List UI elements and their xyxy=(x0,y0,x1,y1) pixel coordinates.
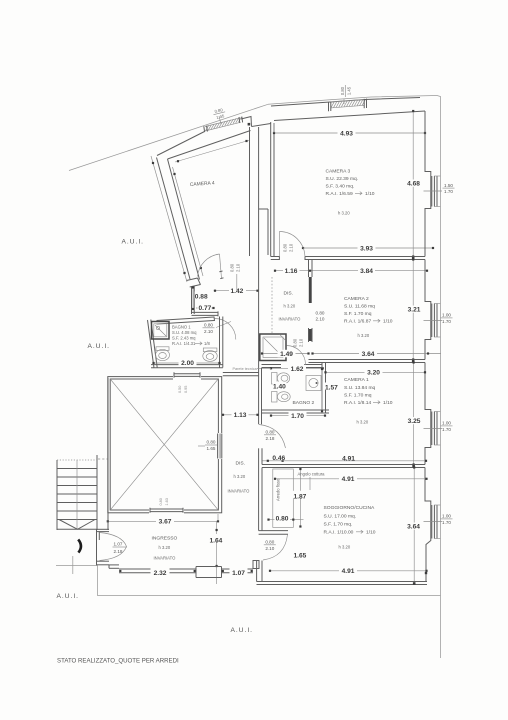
svg-text:4.91: 4.91 xyxy=(342,568,355,575)
door entrance label 1.07/2.18 xyxy=(113,542,128,555)
wall dis west (long) xyxy=(258,256,260,424)
svg-text:S.U. 11.68 mq: S.U. 11.68 mq xyxy=(344,304,375,310)
room label INGRESSO block xyxy=(152,536,178,561)
wall bagno1 north xyxy=(157,317,215,325)
wall ingresso south middle chunk xyxy=(196,567,222,578)
svg-text:1.62: 1.62 xyxy=(291,366,304,373)
svg-text:h 3.20: h 3.20 xyxy=(357,420,369,425)
svg-text:1.07: 1.07 xyxy=(232,570,245,577)
svg-text:3.93: 3.93 xyxy=(360,245,373,252)
door camera2 label 0.80/2.10 xyxy=(316,310,325,321)
door entrance (double arc) xyxy=(100,533,127,561)
svg-text:INVARIATO: INVARIATO xyxy=(154,556,177,561)
window camera3 east xyxy=(432,176,441,207)
wall bagno2 north xyxy=(262,365,323,368)
dim 1.16 and 3.84 xyxy=(274,265,428,275)
svg-text:1.40: 1.40 xyxy=(273,384,286,391)
window camera1 east xyxy=(432,412,441,446)
dim 3.64 (camera2 south) xyxy=(311,348,441,358)
svg-text:1.00: 1.00 xyxy=(442,313,451,318)
door camera4 jamb xyxy=(219,271,223,279)
svg-text:1.13: 1.13 xyxy=(234,412,247,419)
svg-text:1.57: 1.57 xyxy=(325,385,338,392)
svg-text:0.80: 0.80 xyxy=(230,263,235,272)
site boundary (left stub at entrance) xyxy=(56,565,98,567)
dim 3.64 (vertical soggiorno) xyxy=(405,466,422,585)
room label CAMERA 2 block xyxy=(344,296,393,338)
svg-text:S.F. 2.43 mq: S.F. 2.43 mq xyxy=(172,335,196,340)
svg-text:2.10: 2.10 xyxy=(204,329,213,334)
window camera3 east label 1.50/1.70 xyxy=(424,183,455,194)
svg-text:1.07: 1.07 xyxy=(114,542,123,547)
wall camera3 west xyxy=(271,122,274,257)
dim 1.62 xyxy=(270,365,324,373)
wall strip west line xyxy=(249,127,251,256)
dim 1.65 xyxy=(293,550,309,560)
svg-text:4.68: 4.68 xyxy=(407,181,420,188)
wall closet west xyxy=(192,286,195,314)
wall soggiorno door header xyxy=(259,531,288,535)
wall bagno2 south xyxy=(262,410,330,413)
svg-text:0.88: 0.88 xyxy=(195,294,208,301)
svg-text:0.46: 0.46 xyxy=(272,455,285,462)
wall camera4 north outer face xyxy=(157,117,252,156)
dim 3.93 xyxy=(302,244,434,252)
wall bagno1 south xyxy=(151,365,223,368)
dim 4.68 (vertical) xyxy=(405,110,422,258)
site boundary (bottom horizontal) xyxy=(98,595,441,597)
svg-text:1.70: 1.70 xyxy=(444,189,453,194)
dim 0.80 xyxy=(267,513,303,522)
window camera3 north (hatched) xyxy=(329,99,367,112)
wall camera3 north outer face xyxy=(271,98,420,107)
dim 1.87 (vertical) xyxy=(293,468,309,528)
svg-text:A.U.I.: A.U.I. xyxy=(57,593,80,600)
svg-text:1/10: 1/10 xyxy=(383,400,393,406)
svg-text:4.91: 4.91 xyxy=(342,476,355,483)
svg-text:2.00: 2.00 xyxy=(181,360,194,367)
door bagno2 (arc) xyxy=(287,346,306,365)
window camera2 east xyxy=(432,304,441,338)
room label DIS lower xyxy=(228,461,251,494)
svg-text:1.45: 1.45 xyxy=(346,86,351,95)
svg-text:SOGGIORNO/CUCINA: SOGGIORNO/CUCINA xyxy=(324,505,376,511)
svg-text:0.80: 0.80 xyxy=(159,498,163,505)
shower (dis) xyxy=(260,334,286,361)
svg-text:1.50: 1.50 xyxy=(444,183,453,188)
wall camera4 west (inner face) xyxy=(168,159,200,280)
svg-text:h 3.20: h 3.20 xyxy=(339,545,351,550)
svg-text:1/10: 1/10 xyxy=(383,319,393,325)
svg-text:R.A.I. 1/10.00: R.A.I. 1/10.00 xyxy=(324,530,354,536)
dim 1.64 (vertical) xyxy=(209,521,225,584)
wall tecnica (label) xyxy=(233,367,272,371)
door soggiorno label 0.80/2.10 xyxy=(264,540,276,551)
door camera2 sliding leaf (dark) xyxy=(309,277,312,303)
fixture bagno2 wc xyxy=(272,373,290,385)
dim 0.46 and 4.91 (camera1 south) xyxy=(263,453,428,462)
wall corridor east xyxy=(259,368,262,531)
site boundary (bottom-left vertical) xyxy=(97,566,99,596)
wall soggiorno west xyxy=(259,448,262,530)
svg-text:2.18: 2.18 xyxy=(266,436,275,441)
svg-text:INGRESSO: INGRESSO xyxy=(152,536,178,542)
svg-text:0.77: 0.77 xyxy=(199,305,212,312)
window soggiorno east label 1.00/1.70 xyxy=(424,514,453,525)
wall bagno1 east xyxy=(220,317,223,368)
svg-text:2.32: 2.32 xyxy=(154,570,167,577)
svg-text:1.87: 1.87 xyxy=(294,493,307,500)
dim 4.91 (soggiorno south) xyxy=(269,567,428,575)
label A.U.I. bottom-left xyxy=(57,593,80,600)
label A.U.I. mid-left xyxy=(88,343,111,350)
svg-text:S.U. 13.84 mq: S.U. 13.84 mq xyxy=(344,385,376,391)
window ingresso 1.07 xyxy=(222,567,254,577)
wall east (inner face with window recesses) xyxy=(425,111,431,582)
door camera4 (arc) xyxy=(198,254,222,279)
svg-text:2.10: 2.10 xyxy=(316,317,325,322)
dim 3.21 (vertical) xyxy=(406,258,423,360)
svg-text:1.63: 1.63 xyxy=(165,498,169,505)
room label CAMERA 1 block xyxy=(344,377,393,425)
room label CAMERA 4 xyxy=(190,180,215,188)
stairs arrow V xyxy=(59,520,95,530)
svg-text:3.67: 3.67 xyxy=(159,519,172,526)
svg-text:0.95: 0.95 xyxy=(184,386,188,393)
svg-text:1/10: 1/10 xyxy=(366,530,376,536)
door camera1 label 0.80/2.18 xyxy=(264,430,276,441)
door camera3 (leaf+arc) xyxy=(279,232,305,258)
window ingresso 2.32 xyxy=(119,567,196,577)
wall bagno1 west xyxy=(148,320,158,369)
wall strip east line xyxy=(258,127,260,209)
wall camera1 south xyxy=(262,465,425,468)
svg-text:1.70: 1.70 xyxy=(442,319,451,324)
svg-text:1.70: 1.70 xyxy=(442,427,451,432)
site boundary (right vertical) xyxy=(437,96,441,659)
svg-text:0.80: 0.80 xyxy=(265,540,274,545)
wall soggiorno south xyxy=(257,582,428,585)
dim 3.67 xyxy=(107,514,219,526)
wall camera2 west lower chunk xyxy=(309,328,313,342)
svg-text:A.U.I.: A.U.I. xyxy=(88,343,111,350)
svg-text:1.70: 1.70 xyxy=(442,520,451,525)
wall bagno2 east xyxy=(322,363,326,414)
wall ingresso west xyxy=(97,529,100,565)
svg-text:0.80: 0.80 xyxy=(276,516,289,523)
dim 3.25 (vertical) xyxy=(406,361,423,465)
svg-text:1.65: 1.65 xyxy=(294,553,307,560)
door camera4 label 0.80/2.10 (rotated) xyxy=(230,263,241,272)
dashed service line xyxy=(98,458,108,460)
svg-text:3.25: 3.25 xyxy=(408,418,421,425)
svg-text:2.10: 2.10 xyxy=(236,263,241,272)
dim 1.42 xyxy=(214,274,259,295)
dim 1.40 xyxy=(273,382,287,391)
window courtyard south xyxy=(149,507,184,515)
svg-text:S.F. 1.70 mq: S.F. 1.70 mq xyxy=(344,311,372,317)
dim 1.57 (vertical) xyxy=(321,368,339,412)
svg-text:4.91: 4.91 xyxy=(342,455,355,462)
svg-text:4.93: 4.93 xyxy=(340,130,353,137)
svg-text:1.16: 1.16 xyxy=(285,268,298,275)
fixture arredo fisso (fitted furniture) xyxy=(273,469,294,527)
svg-text:0.80: 0.80 xyxy=(293,338,298,347)
niche in wall strip xyxy=(259,209,268,256)
courtyard cross diagonal 1 xyxy=(110,379,218,510)
wall camera4 south (slanted) xyxy=(187,278,201,287)
window courtyard east xyxy=(217,433,223,459)
wall camera4 north inner face xyxy=(168,131,251,160)
dim 0.88 xyxy=(192,286,208,310)
svg-text:R.A.I. 1/6.87: R.A.I. 1/6.87 xyxy=(344,319,371,325)
svg-text:S.U. 22.39 mq.: S.U. 22.39 mq. xyxy=(326,176,359,182)
fixture bagno1 bidet xyxy=(203,348,217,361)
window courtyard north labels (rotated) xyxy=(178,386,188,393)
site boundary A.U.I. line (top-left diagonal) xyxy=(69,104,268,170)
room label DIS upper xyxy=(279,291,302,322)
svg-text:1.65: 1.65 xyxy=(207,446,216,451)
door camera3 label (rotated) xyxy=(283,243,294,252)
fixture bagno1 shower xyxy=(152,322,170,340)
svg-text:STATO REALIZZATO_QUOTE PER ARR: STATO REALIZZATO_QUOTE PER ARREDI xyxy=(57,658,179,665)
wall camera3 south (left chunk) xyxy=(271,256,280,260)
svg-text:S.F. 3.40 mq.: S.F. 3.40 mq. xyxy=(326,184,355,190)
window courtyard south label (rotated) xyxy=(159,498,169,505)
svg-text:Arredo fisso: Arredo fisso xyxy=(276,478,281,501)
window soggiorno east xyxy=(432,505,441,539)
window camera2 east label 1.00/1.70 xyxy=(424,313,453,324)
svg-text:CAMERA 2: CAMERA 2 xyxy=(344,296,369,302)
window camera1 east label 1.00/1.70 xyxy=(424,421,453,432)
label A.U.I. top-left xyxy=(122,239,145,246)
svg-text:R.A.I. 1/8.14: R.A.I. 1/8.14 xyxy=(344,400,371,406)
dim 3.20 xyxy=(324,368,426,376)
svg-text:INVARIATO: INVARIATO xyxy=(228,489,251,494)
door bagno1 (arc) xyxy=(215,318,236,339)
stairs treads xyxy=(57,469,97,520)
svg-text:3.20: 3.20 xyxy=(367,370,380,377)
svg-text:0.80: 0.80 xyxy=(266,430,275,435)
wall camera4 west (outer face) xyxy=(157,158,191,280)
svg-text:0.80: 0.80 xyxy=(207,440,216,445)
fixture bagno1 wc xyxy=(156,347,170,361)
svg-text:3.64: 3.64 xyxy=(407,524,420,531)
dim camera4 west wall (inner diagonal line) xyxy=(173,167,204,276)
wall ingresso north (under stairs) xyxy=(97,529,109,531)
wall soggiorno west lower xyxy=(257,561,262,582)
svg-text:CAMERA 3: CAMERA 3 xyxy=(326,169,351,175)
room label CAMERA 3 block xyxy=(326,169,375,216)
svg-text:h 3.20: h 3.20 xyxy=(358,333,370,338)
svg-text:1.49: 1.49 xyxy=(280,351,293,358)
dim 1.49 xyxy=(261,350,310,358)
room label SOGGIORNO block xyxy=(324,505,376,550)
fixture bagno2 sink xyxy=(306,376,321,391)
dim camera4 west wall (outer diagonal line) xyxy=(151,156,187,282)
svg-text:h 3.20: h 3.20 xyxy=(234,474,246,479)
wall camera2 south xyxy=(309,360,426,363)
fixture bagno2 bidet xyxy=(272,392,291,403)
dim 0.77 xyxy=(196,303,215,312)
svg-text:3.21: 3.21 xyxy=(408,307,421,314)
courtyard cross diagonal 2 xyxy=(110,379,218,510)
svg-text:3.64: 3.64 xyxy=(362,351,375,358)
svg-text:BAGNO 2: BAGNO 2 xyxy=(293,400,315,406)
svg-text:0.50: 0.50 xyxy=(178,386,182,393)
boundary tick mark xyxy=(72,556,74,574)
window courtyard east label 0.80/1.65 xyxy=(198,440,217,451)
wall tecnica band xyxy=(223,373,259,376)
dim 2.00 xyxy=(152,359,220,367)
svg-text:h 3.20: h 3.20 xyxy=(338,211,350,216)
svg-text:0.80: 0.80 xyxy=(316,310,325,315)
svg-text:1.00: 1.00 xyxy=(442,514,451,519)
stairs outline xyxy=(57,455,97,530)
site boundary (top edge) xyxy=(268,96,437,105)
dim camera4 north (diagonal line) xyxy=(175,140,250,162)
svg-text:S.U. 4.08 mq: S.U. 4.08 mq xyxy=(172,330,197,335)
label arredo fisso (rotated) xyxy=(276,478,281,501)
courtyard walls xyxy=(108,377,222,513)
svg-text:0.80: 0.80 xyxy=(283,243,288,252)
stairs direction line xyxy=(76,460,78,530)
svg-text:S.F. 1.70 mq: S.F. 1.70 mq xyxy=(344,393,372,399)
svg-text:1.00: 1.00 xyxy=(442,421,451,426)
svg-text:1/10: 1/10 xyxy=(365,191,375,197)
wall strip connector xyxy=(252,124,271,127)
window camera4 north (hatched) xyxy=(204,117,243,132)
svg-text:Angolo cottura: Angolo cottura xyxy=(298,472,326,477)
svg-text:A.U.I.: A.U.I. xyxy=(122,239,145,246)
wall camera2 west upper xyxy=(309,260,313,278)
door entrance leaf (dark) xyxy=(78,540,81,553)
window camera4 label 0.80/1.45 (rotated) xyxy=(212,107,226,124)
svg-text:3.84: 3.84 xyxy=(360,268,373,275)
svg-text:2.10: 2.10 xyxy=(299,338,304,347)
svg-text:R.A.I. 1/4.31: R.A.I. 1/4.31 xyxy=(172,341,196,346)
wall ingresso south-west chunk xyxy=(97,561,120,568)
wall closet south xyxy=(192,311,219,316)
svg-text:R.A.I. 1/6.59: R.A.I. 1/6.59 xyxy=(326,191,353,197)
dim 4.93 xyxy=(273,113,426,137)
svg-text:S.F. 1.70 mq.: S.F. 1.70 mq. xyxy=(324,522,353,528)
stairwell wall xyxy=(107,378,109,530)
svg-text:BAGNO 1: BAGNO 1 xyxy=(172,325,191,330)
wall camera3 south (right chunk) xyxy=(305,256,425,260)
dim 4.91 (soggiorno north) xyxy=(274,475,428,483)
svg-text:DIS.: DIS. xyxy=(284,291,294,297)
dim 1.70 xyxy=(270,412,326,420)
svg-text:Parete tecnica: Parete tecnica xyxy=(233,367,258,371)
door bagno1 label 0.80/2.10 xyxy=(203,322,232,334)
svg-text:1.64: 1.64 xyxy=(210,538,223,545)
svg-text:CAMERA 1: CAMERA 1 xyxy=(344,377,369,383)
svg-text:2.10: 2.10 xyxy=(289,243,294,252)
window courtyard north xyxy=(173,371,201,380)
svg-text:A.U.I.: A.U.I. xyxy=(231,627,254,634)
dim 1.13 xyxy=(222,409,259,419)
svg-text:1.70: 1.70 xyxy=(291,413,304,420)
door bagno2 label (rotated) xyxy=(293,338,304,347)
room label BAGNO 2 xyxy=(293,400,315,406)
svg-text:2.10: 2.10 xyxy=(265,546,274,551)
svg-text:0.80: 0.80 xyxy=(340,86,345,95)
room label BAGNO 1 block xyxy=(172,325,210,347)
svg-text:0.80: 0.80 xyxy=(204,323,213,328)
wall camera3 north inner face xyxy=(274,111,425,121)
junction dots on vertical dim line xyxy=(412,257,427,585)
svg-text:DIS.: DIS. xyxy=(236,461,246,467)
svg-text:h 3.20: h 3.20 xyxy=(284,304,296,309)
door soggiorno (arc) xyxy=(263,535,288,561)
svg-text:1/8: 1/8 xyxy=(204,341,210,346)
label A.U.I. bottom-center xyxy=(231,627,254,634)
svg-text:h 3.20: h 3.20 xyxy=(159,545,171,550)
window camera3 label (rotated) xyxy=(340,85,351,104)
junction dot xyxy=(248,123,251,126)
label angolo cottura xyxy=(298,472,326,491)
wall corner piece xyxy=(253,561,259,569)
title STATO REALIZZATO xyxy=(57,658,179,665)
svg-text:INVARIATO: INVARIATO xyxy=(279,317,302,322)
door camera1 (arc) xyxy=(259,425,286,449)
svg-text:2.18: 2.18 xyxy=(114,549,123,554)
wall dis west dashed (invariato) xyxy=(271,277,273,334)
svg-text:S.U. 17.00 mq.: S.U. 17.00 mq. xyxy=(324,514,357,520)
